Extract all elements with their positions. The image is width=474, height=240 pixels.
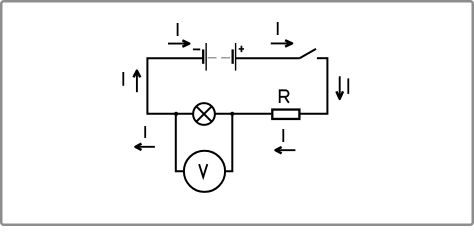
resistor R [272,110,299,119]
wire lamp to node A [176,113,193,115]
voltmeter left lead wire [176,113,184,171]
current arrow I (bottom middle, left-pointing) [276,147,296,153]
current arrow I (top right, right-pointing) [271,40,292,46]
node A junction dot [174,112,178,116]
label R (resistor) [280,89,289,103]
voltmeter U1 [184,151,225,192]
label + (battery positive) [239,46,244,52]
label - (battery negative) [193,48,200,50]
battery internal link (dashed) [208,57,231,59]
battery cell 1 positive plate [205,43,207,71]
lamp [193,103,215,125]
battery cell 2 positive plate [235,43,237,71]
current arrow I (left, up-pointing) [134,71,141,93]
label I (top left) [177,23,179,36]
label I (bottom left) [144,126,146,138]
label I (bottom middle) [282,129,284,142]
switch right contact [317,57,328,59]
current arrow I (right, down-pointing) [336,76,343,99]
wire battery to switch [236,57,300,59]
wire node B to lamp [215,113,232,115]
wire resistor to node B [232,113,271,115]
current arrow I (bottom left, left-pointing) [135,144,155,150]
battery cell 2 negative plate [231,49,233,63]
current arrow I (top left, right-pointing) [168,40,189,46]
battery cell 1 negative plate [202,49,204,63]
label I (top right) [277,22,279,35]
label I (right) [347,78,349,94]
label V (voltmeter) [199,164,207,177]
wire right branch (switch down to resistor) [301,57,328,114]
switch S lever [300,49,316,58]
wire left branch (top-left corner to bottom-left corner) [147,58,202,114]
node B junction dot [230,112,234,116]
label I (left) [122,72,124,86]
voltmeter right lead wire [225,113,232,171]
